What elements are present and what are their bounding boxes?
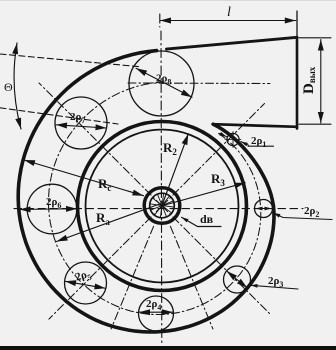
wire Rc arrow (24, 160, 144, 196)
circle 2rho1 tongue (225, 132, 241, 148)
svg-text:2ρ6: 2ρ6 (46, 196, 61, 210)
wire outlet edge (296, 11, 298, 37)
circle 2rho8 (129, 51, 194, 116)
node midline dash-dot spiral (49, 82, 261, 315)
wire 2rho7 dim arrow (56, 125, 107, 128)
wire 2rho2 label leader (273, 213, 332, 220)
node base circle R3 (78, 122, 247, 291)
wire Ra arrow (57, 204, 162, 242)
node radial SW through rho5 (49, 206, 162, 319)
node center horizontal centerline (14, 208, 303, 210)
node radial SE through rho3 (162, 206, 270, 314)
wire d_v leader arrow (182, 217, 222, 226)
circle 2rho5 (65, 262, 107, 304)
node theta dimension arc (14, 43, 21, 129)
node bottom scan bar (0, 346, 336, 350)
node radial NE through rho1 (162, 104, 265, 207)
node hub outer circle (144, 188, 180, 224)
wire spiral outer wall (18, 51, 274, 332)
circle 2rho7 (55, 97, 107, 149)
svg-text:2ρ8: 2ρ8 (156, 73, 171, 87)
circle 2rho3 (224, 266, 251, 293)
svg-text:2ρ5: 2ρ5 (74, 268, 93, 286)
node center vertical centerline (160, 14, 162, 343)
svg-text:Rа: Rа (96, 210, 110, 227)
svg-text:R3: R3 (211, 171, 225, 188)
wire D out dimension line (320, 40, 322, 124)
svg-text:2ρ7: 2ρ7 (70, 111, 85, 125)
wire duct top wall (167, 37, 298, 49)
svg-text:l: l (227, 5, 231, 20)
wire 2rho4 dim arrow (139, 311, 173, 313)
node hub spokes (150, 194, 173, 217)
node duct axis dash-dot (128, 82, 270, 85)
svg-text:2ρ1: 2ρ1 (251, 135, 266, 149)
node impeller circle R2 (86, 130, 239, 283)
node radial NW through rho7 (39, 83, 162, 206)
wire R2 radius arrow (163, 134, 189, 204)
wire duct bottom wall (213, 124, 297, 127)
svg-text:2ρ3: 2ρ3 (268, 275, 283, 289)
wire 2rho5 dim arrow (65, 281, 106, 288)
wire 2rho2 dim arrow (256, 208, 272, 210)
wire l dimension line (160, 20, 296, 22)
svg-text:2ρ2: 2ρ2 (304, 205, 319, 219)
node radial 67.5deg intermediate (170, 226, 213, 329)
circle 2rho2 (255, 200, 273, 218)
wire 2rho1 label leader (248, 145, 274, 147)
svg-text:Rс: Rс (98, 176, 111, 193)
wire theta lower dashed line (0, 108, 118, 124)
wire D out bottom extension (299, 123, 331, 125)
circle 2rho6 (27, 184, 77, 234)
wire 2rho3 label leader (251, 285, 299, 289)
svg-text:R2: R2 (163, 140, 177, 157)
node top scan line (0, 0, 336, 1)
svg-text:Θ: Θ (4, 80, 13, 94)
wire 2rho8 dim arrow (136, 68, 192, 97)
node radial 112.5deg intermediate (111, 226, 154, 329)
svg-text:2ρ4: 2ρ4 (146, 298, 161, 312)
wire 2rho1 dim arrows (220, 133, 227, 136)
wire theta upper dashed line (0, 54, 141, 67)
wire 2rho6 dim arrow (20, 208, 78, 211)
node hub inner circle (150, 193, 175, 218)
wire 2rho3 dim arrow (227, 271, 248, 288)
wire R3 radius arrow (163, 183, 245, 206)
svg-text:dв: dв (200, 212, 214, 226)
svg-text:Dвых: Dвых (301, 66, 317, 94)
wire D out top extension (299, 37, 331, 39)
circle 2rho4 (139, 296, 174, 331)
